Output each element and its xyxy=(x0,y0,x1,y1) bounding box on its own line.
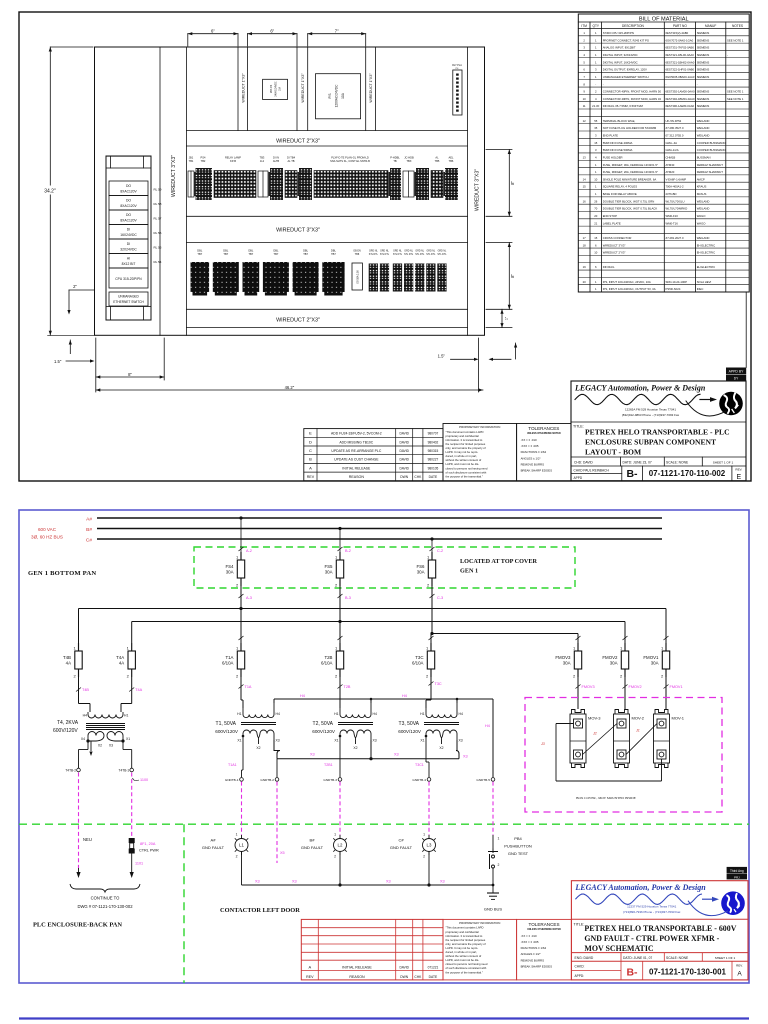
svg-text:DATE: DATE xyxy=(429,475,438,479)
revision table page 1 xyxy=(304,429,443,481)
svg-text:1: 1 xyxy=(595,185,597,189)
wire MOV-1 bottom to bottom bus xyxy=(661,759,663,781)
svg-text:DATE: DATE xyxy=(429,975,438,979)
svg-text:LEGACY Automation, Power & Des: LEGACY Automation, Power & Design xyxy=(574,883,706,892)
BOM table BILL OF MATERIAL xyxy=(578,14,749,292)
transformer T3 50VA 600V/120V xyxy=(398,703,463,750)
svg-text:REASON: REASON xyxy=(349,975,365,979)
lamp L1 A# GND FAULT xyxy=(202,833,248,859)
svg-text:3: 3 xyxy=(595,68,597,72)
svg-text:5MM DIN FUSE 400MA: 5MM DIN FUSE 400MA xyxy=(603,141,633,145)
wire slash above fuse x=340 xyxy=(338,636,343,640)
bottom dimension 1.5 right xyxy=(438,338,518,392)
svg-text:2: 2 xyxy=(73,674,76,679)
svg-text:8F1, 20A: 8F1, 20A xyxy=(140,842,156,846)
node A-3 xyxy=(239,586,252,643)
bus C# xyxy=(86,538,662,544)
svg-text:FMOV3: FMOV3 xyxy=(555,655,571,660)
svg-text:H1: H1 xyxy=(334,712,338,716)
svg-text:GEN 1: GEN 1 xyxy=(460,568,478,575)
svg-text:6ES7322-1HF01-0AB0: 6ES7322-1HF01-0AB0 xyxy=(666,68,695,72)
svg-text:6/10A: 6/10A xyxy=(222,661,234,666)
left bay divider lines xyxy=(160,47,186,335)
svg-text:8XAC120V: 8XAC120V xyxy=(120,190,137,194)
svg-text:SCALE: NONE: SCALE: NONE xyxy=(666,956,689,960)
svg-text:CONTINUE TO: CONTINUE TO xyxy=(91,896,120,901)
svg-text:6: 6 xyxy=(595,243,597,247)
svg-text:3: 3 xyxy=(595,133,597,137)
svg-text:07.312.0755.0: 07.312.0755.0 xyxy=(666,133,684,137)
wire T3 X1 down to GNDTB-4 xyxy=(426,740,429,777)
wire dashed T4TB-1 to 8F1 xyxy=(131,773,133,839)
svg-text:6GK5005-0BA00-1AA3: 6GK5005-0BA00-1AA3 xyxy=(666,75,695,79)
svg-text:PS5R-SF24: PS5R-SF24 xyxy=(666,287,681,291)
svg-text:MIS P4: MIS P4 xyxy=(269,84,273,93)
svg-text:SIEMENS: SIEMENS xyxy=(697,75,710,79)
svg-text:V-EA6F-1-6AMP: V-EA6F-1-6AMP xyxy=(666,177,687,181)
svg-text:TB5: TB5 xyxy=(435,159,440,163)
svg-text:CONNECTOR 40PIN, FRONT MOD, HA: CONNECTOR 40PIN, FRONT MOD, HARN 32 xyxy=(603,97,662,101)
svg-text:4: 4 xyxy=(595,155,597,159)
svg-text:MOV-1: MOV-1 xyxy=(672,716,685,721)
svg-text:2: 2 xyxy=(620,674,623,679)
svg-text:14: 14 xyxy=(583,177,587,181)
svg-text:T4, 2KVA: T4, 2KVA xyxy=(57,720,79,726)
svg-text:2376-BD: 2376-BD xyxy=(666,192,677,196)
svg-text:S7300 CPU 315-2DP/PN: S7300 CPU 315-2DP/PN xyxy=(603,31,634,35)
svg-text:1: 1 xyxy=(583,31,585,35)
svg-text:8": 8" xyxy=(510,273,515,277)
ground arrow on T4 neutral xyxy=(89,741,92,756)
svg-text:duced, in whole or in par: duced, in whole or in part, xyxy=(446,950,478,954)
svg-text:120VAC/24VDC: 120VAC/24VDC xyxy=(335,84,339,107)
svg-text:SDN-10-24-100P: SDN-10-24-100P xyxy=(666,280,688,284)
svg-text:P/S, INPUT 100-240VAC, 24VDC,: P/S, INPUT 100-240VAC, 24VDC, 10A xyxy=(603,280,651,284)
svg-text:TITLE:: TITLE: xyxy=(573,425,584,429)
wire W1 phase A distribution y608 xyxy=(79,607,667,643)
svg-text:PRJ: PRJ xyxy=(734,875,740,879)
svg-text:980105: 980105 xyxy=(428,466,439,470)
wire FMOV3 fuse to MOV-3 xyxy=(577,677,579,709)
svg-text:4: 4 xyxy=(595,97,597,101)
svg-text:ADD FU24-33/FU5V-2, 5VCOM-2: ADD FU24-33/FU5V-2, 5VCOM-2 xyxy=(331,432,382,436)
svg-text:J2: J2 xyxy=(592,732,597,736)
svg-text:FMOV1: FMOV1 xyxy=(670,685,683,689)
wireduct 1x3 vertical #3 xyxy=(366,47,376,131)
svg-text:CONTACTOR LEFT DOOR: CONTACTOR LEFT DOOR xyxy=(220,907,300,914)
svg-text:CHK: CHK xyxy=(414,975,422,979)
svg-text:B-: B- xyxy=(626,967,638,979)
svg-text:2: 2 xyxy=(423,855,425,859)
svg-text:DO: DO xyxy=(126,199,131,203)
svg-text:Z7.280.3527.0: Z7.280.3527.0 xyxy=(666,126,684,130)
svg-text:WIREDUCT 3"X3": WIREDUCT 3"X3" xyxy=(276,228,320,234)
svg-text:PLXF-D TE PLAN-GL PROM-LD: PLXF-D TE PLAN-GL PROM-LD xyxy=(331,156,369,160)
svg-text:600V/120V: 600V/120V xyxy=(398,729,422,734)
svg-text:WEILAND: WEILAND xyxy=(697,207,710,211)
terminal GNDTB-1 xyxy=(225,778,243,782)
svg-text:C#: C# xyxy=(86,538,92,544)
svg-text:GNDTB-1: GNDTB-1 xyxy=(225,778,239,782)
svg-text:600V/120V: 600V/120V xyxy=(215,729,239,734)
svg-text:1: 1 xyxy=(335,555,338,560)
svg-text:55: 55 xyxy=(594,119,598,123)
right edge connector line below BOM xyxy=(745,292,747,368)
svg-text:NOT FUSE PLUG HOLDER FOR 5X20M: NOT FUSE PLUG HOLDER FOR 5X20MM xyxy=(603,126,657,130)
svg-text:2: 2 xyxy=(498,863,500,867)
wire T4 X4 to T4TB-2 xyxy=(79,741,89,768)
svg-text:2: 2 xyxy=(236,855,238,859)
svg-text:REMOVE BURRS: REMOVE BURRS xyxy=(521,462,545,466)
svg-text:E: E xyxy=(736,474,741,481)
svg-text:DBL: DBL xyxy=(303,249,309,253)
svg-text:REV.: REV. xyxy=(736,964,743,968)
wire phase A drop xyxy=(239,516,242,552)
wire name T2B xyxy=(338,685,351,690)
svg-text:1: 1 xyxy=(595,46,597,50)
svg-text:21.3F: 21.3F xyxy=(592,104,599,108)
svg-text:1: 1 xyxy=(427,555,430,560)
wire label X5 xyxy=(280,851,285,855)
svg-text:J1: J1 xyxy=(635,729,640,733)
svg-text:TB7: TB7 xyxy=(303,252,308,256)
svg-text:SIEMENS: SIEMENS xyxy=(697,38,710,42)
svg-text:4A: 4A xyxy=(66,661,71,666)
svg-text:H4: H4 xyxy=(300,694,305,698)
svg-text:30A: 30A xyxy=(651,661,659,666)
svg-text:6ES7392-1AM00-0AA0: 6ES7392-1AM00-0AA0 xyxy=(666,90,696,94)
svg-text:COOPER BUSSMANN: COOPER BUSSMANN xyxy=(697,148,726,152)
svg-text:LEGACY Automation, Power & Des: LEGACY Automation, Power & Design xyxy=(574,384,706,393)
wire label J2 xyxy=(592,732,597,736)
svg-text:UPDATE AS RE-ARRANGE PLC: UPDATE AS RE-ARRANGE PLC xyxy=(331,449,381,453)
svg-text:ADD MISSING TB10C: ADD MISSING TB10C xyxy=(339,440,373,444)
svg-text:6/10A: 6/10A xyxy=(412,661,424,666)
svg-text:COOPER BUSSMANN: COOPER BUSSMANN xyxy=(697,141,726,145)
wire name T4B xyxy=(76,688,89,693)
wire T4A fuse to T4 H1 xyxy=(121,677,132,712)
svg-text:SNA SHTS KL, CONT EL SNTR-B: SNA SHTS KL, CONT EL SNTR-B xyxy=(330,159,370,163)
svg-text:10A: 10A xyxy=(279,86,282,91)
svg-text:B#: B# xyxy=(310,838,316,843)
svg-text:2: 2 xyxy=(426,674,429,679)
wire 8F1 to arrow xyxy=(130,854,134,879)
svg-text:DBL: DBL xyxy=(223,249,229,253)
svg-text:T2B: T2B xyxy=(344,685,351,689)
right dimension 1 inch xyxy=(486,327,512,329)
svg-text:H4: H4 xyxy=(459,712,463,716)
svg-text:BASE FOR RELAY ABOVE: BASE FOR RELAY ABOVE xyxy=(603,192,637,196)
svg-text:JB1: JB1 xyxy=(189,156,194,160)
svg-text:2: 2 xyxy=(573,674,576,679)
terminal T4TB-2 xyxy=(65,768,80,772)
svg-text:1: 1 xyxy=(595,280,597,284)
svg-text:EH ELECTRIC: EH ELECTRIC xyxy=(697,265,716,269)
svg-text:30A: 30A xyxy=(226,570,234,575)
svg-text:GRD NL: GRD NL xyxy=(415,251,424,253)
svg-text:T4TB-1: T4TB-1 xyxy=(119,769,130,773)
svg-text:STL DTL: STL DTL xyxy=(404,254,414,256)
page 1: PLC enclosure subpan component layout drawing xyxy=(19,12,751,481)
dimension 34.2 inch left xyxy=(40,47,93,335)
proprietary information block page 2 xyxy=(443,919,517,980)
svg-text:10: 10 xyxy=(594,177,598,181)
wire MOV-3 top to bottom bus xyxy=(556,724,662,782)
svg-text:INITIAL RELEASE: INITIAL RELEASE xyxy=(342,466,371,470)
svg-text:P.S: P.S xyxy=(328,93,332,99)
svg-text:H1: H1 xyxy=(124,714,128,718)
svg-text:JL2: JL2 xyxy=(260,159,265,163)
svg-text:1: 1 xyxy=(423,833,425,837)
svg-text:1100: 1100 xyxy=(140,778,148,782)
svg-text:B: B xyxy=(309,457,312,462)
svg-text:-: - xyxy=(603,82,604,86)
svg-text:DO: DO xyxy=(126,213,131,217)
svg-text:GNDTB-3: GNDTB-3 xyxy=(323,778,337,782)
svg-text:TB2: TB2 xyxy=(201,159,206,163)
svg-text:SOLA HEVI: SOLA HEVI xyxy=(697,280,712,284)
svg-text:TBX: TBX xyxy=(406,159,411,163)
wire name T4A xyxy=(129,688,142,693)
svg-text:Z7.281.2027.0: Z7.281.2027.0 xyxy=(666,236,684,240)
svg-text:6": 6" xyxy=(270,29,274,34)
wire name FMOV2 xyxy=(623,685,642,690)
svg-text:46.2": 46.2" xyxy=(285,385,295,390)
dimension 2 inch xyxy=(67,284,94,315)
svg-text:X3: X3 xyxy=(386,880,391,884)
svg-text:STL DTL: STL DTL xyxy=(369,254,379,256)
svg-text:A#: A# xyxy=(211,838,217,843)
svg-text:WEILAND: WEILAND xyxy=(697,236,710,240)
svg-text:1": 1" xyxy=(505,316,509,320)
svg-text:T1A: T1A xyxy=(245,685,252,689)
PLC rack with modules xyxy=(106,156,162,320)
svg-text:DIGITAL OUTPUT, 8XRELAY, 120V: DIGITAL OUTPUT, 8XRELAY, 120V xyxy=(603,68,647,72)
svg-text:UNMANAGED ETHERNET SWITCH: UNMANAGED ETHERNET SWITCH xyxy=(603,75,649,79)
svg-text:GND TEST: GND TEST xyxy=(508,851,529,856)
svg-text:10A: 10A xyxy=(341,92,345,99)
svg-text:GB 50A 2.5X: GB 50A 2.5X xyxy=(357,270,360,284)
svg-text:DAVID: DAVID xyxy=(399,965,409,969)
svg-text:DOUBLE TIER BLOCK, WGT 0.75L G: DOUBLE TIER BLOCK, WGT 0.75L GRN xyxy=(603,199,655,203)
wireduct 1x3 vertical #1 xyxy=(238,47,248,131)
wireduct 1x3 vertical #2 xyxy=(297,47,308,131)
wire dashed GNDTB-2 X5 xyxy=(276,782,278,863)
svg-text:980227: 980227 xyxy=(428,458,439,462)
relay strip RLY-PLA xyxy=(452,64,462,115)
svg-text:17: 17 xyxy=(583,236,587,240)
svg-text:DAVID: DAVID xyxy=(399,458,409,462)
svg-text:A: A xyxy=(308,964,311,969)
svg-text:16: 16 xyxy=(583,199,587,203)
svg-text:15: 15 xyxy=(583,185,587,189)
svg-text:8X12 BIT: 8X12 BIT xyxy=(122,262,136,266)
svg-text:X3: X3 xyxy=(255,880,260,884)
svg-text:FMOV1: FMOV1 xyxy=(643,655,659,660)
svg-text:T1, 50VA: T1, 50VA xyxy=(216,721,237,727)
svg-text:6ES7315(2)-4AB0: 6ES7315(2)-4AB0 xyxy=(666,31,689,35)
svg-text:2": 2" xyxy=(73,284,77,289)
svg-text:980315: 980315 xyxy=(428,449,439,453)
svg-text:TB7: TB7 xyxy=(223,252,228,256)
svg-text:2: 2 xyxy=(334,855,336,859)
svg-text:AI: AI xyxy=(127,257,130,261)
svg-text:PROFINET CONNECT, RJ45 KIT PG: PROFINET CONNECT, RJ45 KIT PG xyxy=(603,38,649,42)
svg-text:3: 3 xyxy=(595,148,597,152)
wire slash above fuse x=578 xyxy=(576,636,581,640)
svg-text:FS4: FS4 xyxy=(225,564,234,569)
svg-text:AMCP: AMCP xyxy=(697,177,705,181)
svg-text:07-1121-170-110-002: 07-1121-170-110-002 xyxy=(649,469,726,478)
svg-text:20: 20 xyxy=(594,214,598,218)
svg-text:ALTB: ALTB xyxy=(273,159,280,163)
svg-text:WIREDUCT 3"X3": WIREDUCT 3"X3" xyxy=(475,169,481,211)
svg-text:PETREX HELO TRANSPORTABLE - PL: PETREX HELO TRANSPORTABLE - PLC xyxy=(585,428,730,437)
title block page 2 xyxy=(571,881,748,980)
svg-text:SIEMENS: SIEMENS xyxy=(697,53,710,57)
wire T3C fuse to T3 H1 xyxy=(426,677,431,708)
wire W2 phase B distribution y621 xyxy=(132,620,625,643)
svg-text:980707: 980707 xyxy=(428,432,439,436)
text CONTACTOR LEFT DOOR xyxy=(220,907,300,914)
svg-text:8": 8" xyxy=(510,180,515,184)
power supply box P.S 120VAC/24VDC 10A xyxy=(316,74,361,119)
svg-text:TB8: TB8 xyxy=(355,253,360,256)
svg-text:1: 1 xyxy=(498,837,500,841)
svg-text:ANGLES ± 1/2°: ANGLES ± 1/2° xyxy=(521,952,541,956)
right dimension 8 inch upper xyxy=(486,150,512,217)
svg-text:TERMINAL BLOCK WGE,: TERMINAL BLOCK WGE, xyxy=(603,119,636,123)
svg-text:1: 1 xyxy=(595,163,597,167)
wireduct 2x3 top horizontal band xyxy=(186,131,467,147)
svg-text:1: 1 xyxy=(595,75,597,79)
svg-text:1: 1 xyxy=(595,170,597,174)
svg-text:GRD NL: GRD NL xyxy=(427,251,436,253)
svg-text:6GK7072-0AK0-1GA0: 6GK7072-0AK0-1GA0 xyxy=(666,38,694,42)
svg-text:BREAK SHARP EDGES: BREAK SHARP EDGES xyxy=(521,469,553,473)
MOV-1 xyxy=(654,710,685,768)
svg-text:LAYOUT - BOM: LAYOUT - BOM xyxy=(585,448,641,457)
svg-text:DBL: DBL xyxy=(273,249,279,253)
svg-text:1: 1 xyxy=(335,646,338,651)
svg-text:X3: X3 xyxy=(109,744,113,748)
svg-text:DBL: DBL xyxy=(197,249,203,253)
svg-text:MANUF: MANUF xyxy=(705,24,716,28)
terminal T4TB-1 xyxy=(119,768,134,772)
svg-text:WIREDUCT 2"X3": WIREDUCT 2"X3" xyxy=(276,138,320,144)
svg-text:Third Ang: Third Ang xyxy=(730,869,744,873)
svg-text:APPD BY: APPD BY xyxy=(729,370,744,374)
svg-text:DI TB4: DI TB4 xyxy=(287,156,296,160)
svg-text:18: 18 xyxy=(583,243,587,247)
svg-text:1: 1 xyxy=(595,31,597,35)
svg-text:1: 1 xyxy=(127,646,130,651)
svg-text:980402: 980402 xyxy=(428,440,439,444)
svg-text:LAPD. It may not be repr: LAPD. It may not be repro- xyxy=(446,450,479,454)
svg-text:6: 6 xyxy=(583,68,585,72)
svg-text:PROPRIETARY INFORMATION: PROPRIETARY INFORMATION xyxy=(459,425,500,429)
svg-text:13: 13 xyxy=(583,155,587,159)
svg-text:4A: 4A xyxy=(119,661,124,666)
svg-text:WL70/L70/SLU: WL70/L70/SLU xyxy=(666,199,685,203)
wire diagonal MOV-3 bottom to MOV-2 top xyxy=(583,724,618,755)
svg-text:STL DTL: STL DTL xyxy=(393,254,403,256)
svg-text:C: C xyxy=(309,448,312,453)
lamp L3 C# GND FAULT xyxy=(390,833,436,859)
svg-text:LAPD. It may not be repr: LAPD. It may not be repro- xyxy=(446,946,479,950)
svg-text:C#: C# xyxy=(398,838,404,843)
fuse FMOV2 30A xyxy=(602,643,628,679)
svg-text:UNLESS OTHERWISE NOTED: UNLESS OTHERWISE NOTED xyxy=(527,928,561,931)
MOV-2 xyxy=(614,710,645,768)
svg-text:WIREDUCT 2"X3": WIREDUCT 2"X3" xyxy=(276,318,320,324)
svg-text:6ES7321-1BL00-0AA0: 6ES7321-1BL00-0AA0 xyxy=(666,53,695,57)
svg-text:SHEET 1 OF 1: SHEET 1 OF 1 xyxy=(713,460,734,464)
svg-text:GND FAULT: GND FAULT xyxy=(390,845,413,850)
tolerances block page 1 xyxy=(517,424,571,481)
svg-text:15: 15 xyxy=(594,236,598,240)
wire dashed GNDTB-1 to lamp L1 xyxy=(241,782,243,835)
svg-text:H4: H4 xyxy=(373,712,377,716)
svg-text:2: 2 xyxy=(335,674,338,679)
svg-text:C-3: C-3 xyxy=(437,596,443,600)
svg-text:GMA-1/2A: GMA-1/2A xyxy=(666,148,679,152)
svg-text:D: D xyxy=(309,439,312,444)
svg-text:LOCATED AT TOP COVER: LOCATED AT TOP COVER xyxy=(460,558,537,565)
svg-text:30A: 30A xyxy=(610,661,618,666)
svg-text:DOUBLE TIER BLOCK, WGT 0.75L B: DOUBLE TIER BLOCK, WGT 0.75L BLACK xyxy=(603,207,658,211)
svg-text:J3: J3 xyxy=(540,742,545,746)
svg-text:X2: X2 xyxy=(439,746,443,750)
svg-text:A-2: A-2 xyxy=(246,549,252,553)
wire dashed GNDTB-3 to lamp L2 xyxy=(339,782,341,835)
svg-text:GRD NL: GRD NL xyxy=(369,251,378,253)
svg-text:TB7: TB7 xyxy=(197,252,202,256)
svg-text:TOLERANCES: TOLERANCES xyxy=(528,426,559,431)
svg-text:.XX = ± .010: .XX = ± .010 xyxy=(521,438,537,442)
svg-text:CHKD:: CHKD: xyxy=(575,965,585,969)
svg-text:ATM30: ATM30 xyxy=(666,163,675,167)
svg-text:GMA-.4A: GMA-.4A xyxy=(666,141,678,145)
svg-text:26: 26 xyxy=(594,199,598,203)
wire dashed T4TB-2 to neutral arrow xyxy=(76,773,80,879)
svg-text:STL DTL: STL DTL xyxy=(415,254,425,256)
svg-text:"This document contains LAPD: "This document contains LAPD xyxy=(446,430,484,434)
svg-text:ENG: DAVID: ENG: DAVID xyxy=(575,956,594,960)
interface relay box MIS-P4 xyxy=(263,79,288,99)
svg-text:GB EN: GB EN xyxy=(353,250,361,253)
svg-text:L1: L1 xyxy=(239,843,244,848)
svg-text:P/S, INPUT 120-240VAC, OUTPUT: P/S, INPUT 120-240VAC, OUTPUT 5V, 3A xyxy=(603,287,656,291)
svg-text:SIEMENS: SIEMENS xyxy=(697,60,710,64)
svg-text:JC-HDB: JC-HDB xyxy=(404,156,414,160)
magenta dashed MOV box cover xyxy=(525,698,722,813)
svg-text:T4TB-2: T4TB-2 xyxy=(65,769,76,773)
svg-text:BUSSMAN: BUSSMAN xyxy=(697,155,711,159)
wire slash above fuse x=431 xyxy=(429,636,434,640)
text NEU xyxy=(83,837,92,842)
svg-text:RL 56: RL 56 xyxy=(154,231,162,235)
svg-text:X2: X2 xyxy=(98,744,102,748)
terminal GNDTB-5 xyxy=(476,778,494,782)
wire T4 X1 to T4TB-1 xyxy=(123,741,132,768)
svg-text:T4A: T4A xyxy=(116,655,124,660)
fuse FMOV1 30A xyxy=(643,643,669,679)
wire diagonal MOV-2 bottom to MOV-1 top xyxy=(626,724,657,755)
svg-text:only, and remains the property: only, and remains the property of xyxy=(446,942,486,946)
fuse T1A 6/10A xyxy=(222,643,245,679)
svg-text:19: 19 xyxy=(583,265,587,269)
